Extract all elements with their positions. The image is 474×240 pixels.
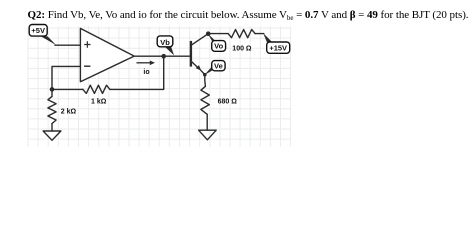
op-amp minus sign [84,65,90,67]
wire 1k to feedback corner [110,56,164,89]
wire 2k to ground [51,124,53,131]
flag Vo box [212,41,226,52]
emitter stroke [191,61,200,69]
ground left [43,131,61,140]
wire node to 1k resistor [52,88,83,90]
svg-text:2 kΩ: 2 kΩ [61,109,77,116]
wire 100 ohm to +15V tail [255,33,264,35]
wire op-amp - input to corner and down [52,66,80,89]
resistor R 680 zigzag [201,86,209,114]
flag Vo tail [208,34,216,42]
flag +5V tail [41,36,56,45]
svg-text:+15V: +15V [269,44,287,53]
svg-text:100 Ω: 100 Ω [232,45,252,52]
base bar [190,41,192,67]
flag +15V box [267,42,290,53]
flag Ve tail [204,67,211,75]
wire emitter node down [201,70,206,86]
flag Ve box [212,61,225,71]
junction dot node Ve emitter [203,73,207,77]
svg-text:Vo: Vo [214,42,223,51]
flag +15V tail [263,33,272,42]
wire op-amp output to BJT base [134,55,190,57]
collector stroke [191,34,208,46]
op-amp plus sign [84,41,90,47]
svg-text:Q2: Find Vb, Ve, Vo and io for: Q2: Find Vb, Ve, Vo and io for the circu… [28,9,469,22]
flag Vb tail [164,46,174,55]
op-amp U1 [80,28,134,81]
junction dot node Vb [161,54,166,59]
svg-text:+5V: +5V [31,26,45,35]
io current arrow [137,61,156,66]
svg-text:1 kΩ: 1 kΩ [91,98,107,105]
svg-text:680 Ω: 680 Ω [218,99,238,106]
resistor R 1k zigzag [83,85,110,93]
resistor R 100 zigzag [228,30,255,38]
wire collector to 100 ohm [208,33,228,35]
resistor R 2k zigzag [48,96,56,123]
flag +5V box [29,25,47,37]
wire +5V to op-amp + input [55,44,80,46]
flag Vb box [157,36,173,47]
transistor Q1 BJT [191,34,208,71]
svg-text:Vb: Vb [160,38,170,47]
emitter arrowhead [196,65,202,71]
svg-text:io: io [143,69,149,76]
wire 680 to ground [206,114,208,130]
svg-text:Ve: Ve [214,61,223,70]
junction dot node inverting [50,87,55,92]
ground right [199,130,217,140]
junction dot node Vo collector [206,31,211,36]
wire 2k lead from node [51,89,53,96]
